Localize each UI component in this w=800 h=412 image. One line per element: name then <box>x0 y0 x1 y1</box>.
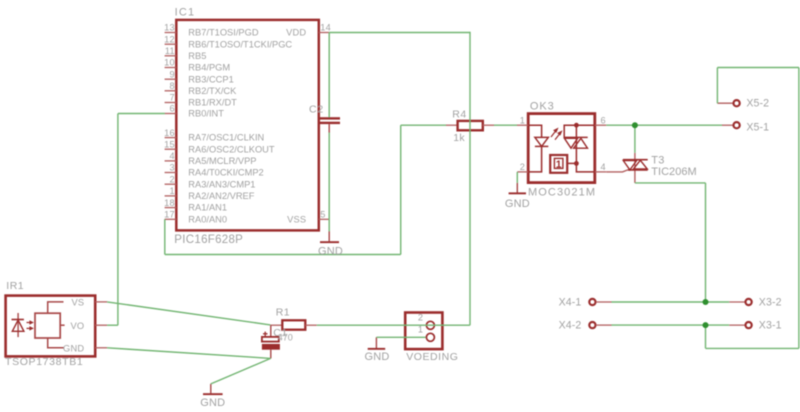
IR1 VS pin <box>48 302 107 313</box>
svg-text:T3: T3 <box>651 154 665 166</box>
svg-text:IC1: IC1 <box>175 7 196 19</box>
T3 gate lead <box>606 170 627 172</box>
svg-text:GND: GND <box>364 351 389 363</box>
svg-text:RA3/AN3/CMP1: RA3/AN3/CMP1 <box>188 179 255 189</box>
svg-text:RA2/AN2/VREF: RA2/AN2/VREF <box>188 191 254 201</box>
svg-text:TIC206M: TIC206M <box>651 166 697 178</box>
IC1 pin 14 stub <box>319 32 329 34</box>
OK3 internal LED <box>528 125 548 172</box>
wire RB0: vertical x118 <box>117 114 119 326</box>
IR1 GND pin <box>48 338 107 348</box>
svg-text:10: 10 <box>164 58 175 68</box>
wire OK3 pin2 to GND <box>516 172 518 183</box>
svg-text:RB3/CCP1: RB3/CCP1 <box>188 74 233 84</box>
junction X4-1/X3-2 row <box>703 299 709 305</box>
svg-text:GND: GND <box>505 198 530 210</box>
svg-text:R4: R4 <box>452 109 466 121</box>
IC1 pin 17 stub <box>165 218 177 220</box>
OK3 internal triac <box>564 125 595 163</box>
svg-text:RA7/OSC1/CLKIN: RA7/OSC1/CLKIN <box>188 133 264 143</box>
svg-text:RA6/OSC2/CLKOUT: RA6/OSC2/CLKOUT <box>188 144 275 154</box>
IC1 pin 1 stub <box>165 195 177 197</box>
IC1 pin 18 stub <box>165 207 177 209</box>
svg-text:GND: GND <box>200 397 225 409</box>
svg-text:RA1/AN1: RA1/AN1 <box>188 203 227 213</box>
svg-text:12: 12 <box>164 34 175 44</box>
svg-text:6: 6 <box>601 115 607 125</box>
IR1 inner box <box>35 313 60 338</box>
svg-text:RB5: RB5 <box>188 51 206 61</box>
svg-text:1: 1 <box>556 159 562 170</box>
svg-text:1: 1 <box>418 324 424 334</box>
wire X4-2 to X3-1 <box>612 324 730 326</box>
svg-text:RB2/TX/CK: RB2/TX/CK <box>188 86 237 96</box>
svg-text:17: 17 <box>164 210 175 220</box>
svg-text:PIC16F628P: PIC16F628P <box>174 234 243 246</box>
OK3 pin 2 stub <box>517 171 528 173</box>
svg-text:7: 7 <box>169 93 174 103</box>
terminal X5-2 <box>717 100 739 106</box>
resistor R1 body <box>270 320 317 329</box>
svg-text:X4-1: X4-1 <box>559 297 582 309</box>
junction X4-2/X3-1 row <box>703 322 709 328</box>
terminal X3-1 <box>729 322 752 328</box>
svg-text:GND: GND <box>318 245 343 257</box>
OK3 gate box 1 <box>550 155 576 173</box>
wire C2 top branch <box>328 33 330 118</box>
capacitor C2 plates <box>319 117 340 133</box>
svg-text:MOC3021M: MOC3021M <box>528 187 596 199</box>
wire loop bottom <box>706 347 799 349</box>
svg-text:1: 1 <box>520 115 526 125</box>
IC IC1 PIC16F628P body <box>176 20 318 231</box>
ground symbol below C1/IR1 <box>203 384 223 395</box>
OK3 internal junction dots <box>574 123 579 166</box>
svg-text:RB1/RX/DT: RB1/RX/DT <box>188 98 237 108</box>
svg-text:VSS: VSS <box>287 214 306 224</box>
IC1 pin 12 stub <box>165 43 177 45</box>
IC1 pin 13 stub <box>165 32 177 34</box>
connector VOEDING box <box>405 313 442 350</box>
wire VDD: vertical x470 <box>469 32 471 325</box>
wire X4-1 to X3-2 <box>612 301 730 303</box>
svg-text:470: 470 <box>278 332 293 342</box>
optocoupler OK3 box <box>528 114 595 183</box>
svg-text:1: 1 <box>169 186 174 196</box>
IC1 pin 6 stub <box>165 113 177 115</box>
wire IR1 GND diagonal <box>107 348 271 359</box>
ground symbol below OK3 pin 2 <box>509 183 526 194</box>
svg-text:2: 2 <box>418 313 424 323</box>
IC1 pin 5 stub <box>319 218 329 220</box>
svg-text:4: 4 <box>601 162 607 172</box>
svg-text:13: 13 <box>164 23 175 33</box>
terminal X4-2 <box>589 322 611 328</box>
svg-text:RA0/AN0: RA0/AN0 <box>188 214 227 224</box>
svg-text:11: 11 <box>165 46 175 56</box>
terminal X4-1 <box>589 299 611 305</box>
svg-text:18: 18 <box>164 198 175 208</box>
wire RB0: to IR1 VO <box>107 324 118 326</box>
IC1 pin 4 stub <box>165 160 177 162</box>
wire X4-2 row to loop <box>705 325 707 348</box>
IR1 VO pin <box>60 324 107 326</box>
svg-text:X3-2: X3-2 <box>759 297 782 309</box>
terminal X5-1 <box>722 122 740 128</box>
svg-text:VO: VO <box>70 321 84 331</box>
wire RA0: horizontal under IC <box>165 254 401 256</box>
svg-text:C2: C2 <box>309 104 324 116</box>
wire RA0: vertical x400 <box>400 125 402 254</box>
svg-text:4: 4 <box>169 151 174 161</box>
wire T3 bottom right <box>635 182 706 184</box>
svg-text:R1: R1 <box>276 306 290 318</box>
IR1 light arrows <box>27 321 34 330</box>
svg-text:2: 2 <box>169 174 174 184</box>
svg-text:X3-1: X3-1 <box>759 320 782 332</box>
svg-text:X5-1: X5-1 <box>746 122 769 134</box>
svg-text:3: 3 <box>169 163 174 173</box>
wire R1 right to VDD riser <box>317 324 470 326</box>
svg-text:RB6/T1OSO/T1CKI/PGC: RB6/T1OSO/T1CKI/PGC <box>188 39 292 49</box>
IC1 pin 11 stub <box>165 55 177 57</box>
IC1 pin 8 stub <box>165 90 177 92</box>
svg-text:6: 6 <box>169 104 174 114</box>
wire down to X4-1 row <box>705 183 707 302</box>
OK3 pin 1 stub <box>517 124 528 126</box>
svg-text:RB0/INT: RB0/INT <box>188 109 224 119</box>
IC1 pin 10 stub <box>165 67 177 69</box>
svg-text:RA5/MCLR/VPP: RA5/MCLR/VPP <box>188 156 256 166</box>
wire T3 top branch <box>634 125 636 153</box>
svg-text:TSOP1738TB1: TSOP1738TB1 <box>5 356 83 368</box>
svg-text:IR1: IR1 <box>6 280 24 292</box>
svg-text:2: 2 <box>520 162 526 172</box>
svg-text:15: 15 <box>164 139 175 149</box>
capacitor C1 electrolytic <box>262 325 280 358</box>
IC1 pin 3 stub <box>165 172 177 174</box>
IC1 pin 7 stub <box>165 102 177 104</box>
wire VOEDING pin1 to GND <box>376 336 425 338</box>
wire loop top <box>717 67 799 69</box>
svg-text:RB7/T1OSI/PGD: RB7/T1OSI/PGD <box>188 28 259 38</box>
wire IR1 VS diagonal <box>107 302 270 325</box>
svg-text:VOEDING: VOEDING <box>406 351 458 363</box>
wire VDD: pin14 to x470 <box>329 32 470 34</box>
svg-text:1k: 1k <box>453 132 465 144</box>
svg-text:OK3: OK3 <box>530 101 555 113</box>
wire loop right edge <box>798 68 800 349</box>
svg-text:14: 14 <box>320 23 331 33</box>
OK3 pin4 internal lead <box>576 163 594 172</box>
resistor R4 body <box>446 121 494 130</box>
junction X5-1 net <box>632 122 638 128</box>
IC1 pin 15 stub <box>165 148 177 150</box>
svg-text:VS: VS <box>71 297 84 307</box>
triac T3 TIC206M <box>623 153 648 183</box>
svg-text:RA4/T0CKI/CMP2: RA4/T0CKI/CMP2 <box>188 168 263 178</box>
svg-text:RB4/PGM: RB4/PGM <box>188 63 230 73</box>
wire C2 bottom to GND <box>328 133 330 232</box>
svg-text:X5-2: X5-2 <box>746 98 769 110</box>
wire RB0: pin6 to x118 <box>118 113 165 115</box>
IC1 pin 2 stub <box>165 183 177 185</box>
svg-text:9: 9 <box>169 69 174 79</box>
wire X5-2 riser <box>716 68 718 104</box>
terminal X3-2 <box>729 299 752 305</box>
OK3 pin 6 stub <box>595 124 607 126</box>
svg-text:8: 8 <box>169 81 174 91</box>
IR receiver IR1 box <box>6 296 96 357</box>
wire RA0: to R4 left <box>401 124 446 126</box>
IC1 pin 16 stub <box>165 137 177 139</box>
IR1 photodiode <box>12 313 24 337</box>
wire C1 to GND diagonal <box>211 358 271 384</box>
wire RA0: vertical from pin17 <box>164 219 166 254</box>
OK3 light arrows <box>551 128 562 140</box>
ground symbol at VOEDING pin1 <box>368 337 386 350</box>
svg-text:VDD: VDD <box>286 27 306 37</box>
wire OK3 pin6 to X5-1 <box>606 124 722 126</box>
IC1 pin 9 stub <box>165 78 177 80</box>
svg-text:X4-2: X4-2 <box>559 320 582 332</box>
svg-text:5: 5 <box>320 209 325 219</box>
svg-text:16: 16 <box>164 128 175 138</box>
OK3 pin 4 stub <box>595 171 607 173</box>
svg-text:GND: GND <box>63 343 84 353</box>
wire R4 right to OK3 pin1 <box>494 124 517 126</box>
ground symbol below C2 <box>320 231 339 243</box>
